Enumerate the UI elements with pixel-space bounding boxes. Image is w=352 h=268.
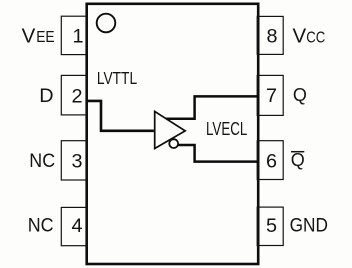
- wire: Q-bar output (flag bottom) to pin 6: [178, 145, 258, 162]
- buffer triangle U1: [155, 111, 186, 148]
- svg-text:NC: NC: [28, 215, 54, 237]
- pin 8 box: [257, 16, 283, 54]
- pin 7 box: [257, 75, 283, 115]
- pin 1 box: [61, 16, 87, 54]
- svg-text:EE: EE: [36, 29, 54, 46]
- label VEE (pin 1): [22, 24, 55, 47]
- svg-text:LVTTL: LVTTL: [97, 68, 137, 88]
- pin 3 box: [61, 141, 87, 180]
- pin-1 indicator circle: [97, 14, 116, 33]
- svg-text:V: V: [22, 24, 36, 47]
- svg-text:V: V: [293, 24, 307, 47]
- svg-text:LVECL: LVECL: [206, 119, 247, 139]
- inversion bubble: [169, 139, 178, 148]
- pin 2 box: [61, 75, 87, 115]
- IC body U1: [87, 4, 259, 264]
- svg-text:8: 8: [266, 26, 277, 48]
- pin 6 box: [257, 141, 283, 180]
- svg-text:Q: Q: [291, 150, 305, 170]
- svg-text:D: D: [39, 85, 53, 107]
- wire: input D from pin 2 to buffer: [87, 101, 154, 131]
- svg-text:3: 3: [71, 151, 82, 173]
- svg-text:CC: CC: [306, 30, 325, 47]
- svg-text:Q: Q: [293, 85, 307, 105]
- label VCC (pin 8): [293, 24, 326, 47]
- label Q-bar (pin 6): [291, 150, 305, 170]
- svg-text:2: 2: [71, 85, 82, 107]
- pin 4 box: [61, 207, 87, 245]
- svg-text:4: 4: [71, 215, 82, 237]
- wire: Q output (flag top) to pin 7: [165, 96, 258, 118]
- pin 5 box: [257, 207, 283, 245]
- svg-text:NC: NC: [29, 150, 55, 172]
- svg-text:7: 7: [266, 85, 277, 107]
- svg-text:5: 5: [266, 215, 277, 237]
- svg-text:1: 1: [72, 25, 83, 47]
- svg-text:6: 6: [266, 151, 277, 173]
- svg-text:GND: GND: [290, 214, 328, 236]
